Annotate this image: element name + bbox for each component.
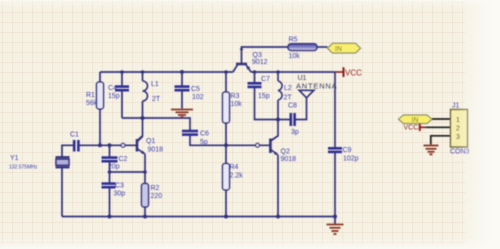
svg-text:C4: C4 xyxy=(108,85,117,92)
svg-text:C9: C9 xyxy=(343,147,352,154)
svg-text:9018: 9018 xyxy=(148,147,164,154)
crystal Y1 xyxy=(9,155,70,171)
capacitor C7 xyxy=(248,83,262,87)
svg-text:220: 220 xyxy=(151,193,163,200)
svg-text:Y1: Y1 xyxy=(10,155,19,162)
junction C7 top on VCC rail xyxy=(253,70,257,74)
svg-text:R2: R2 xyxy=(151,185,160,192)
svg-text:C1: C1 xyxy=(70,132,79,139)
wire Q3 emitter to VCC rail xyxy=(246,65,251,72)
svg-text:L2: L2 xyxy=(284,85,292,92)
capacitor C4 xyxy=(115,87,129,91)
junction R1 bottom on Q1 base wire xyxy=(98,143,102,147)
wire oscillator tank node xyxy=(122,118,190,131)
svg-text:Q1: Q1 xyxy=(146,138,155,145)
svg-text:VCC: VCC xyxy=(404,125,419,132)
port IN (top) xyxy=(328,43,361,53)
svg-text:C5: C5 xyxy=(191,86,200,93)
capacitor C9 xyxy=(328,148,342,152)
svg-text:C7: C7 xyxy=(261,76,270,83)
svg-text:IN: IN xyxy=(412,117,419,124)
svg-text:56k: 56k xyxy=(86,100,98,107)
junction L2 top on VCC rail xyxy=(276,70,280,74)
junction R3/R4 on Q2 base wire xyxy=(224,143,228,147)
transistor Q3 xyxy=(236,46,268,70)
node stub circle on Q2 base wire xyxy=(256,143,260,147)
svg-text:L1: L1 xyxy=(151,81,159,88)
capacitor C3 xyxy=(102,184,116,188)
svg-text:ANTENNA: ANTENNA xyxy=(296,82,337,91)
power ground at J1 xyxy=(424,146,439,155)
junction node A tank/collector xyxy=(141,116,145,120)
transistor Q1 xyxy=(137,136,163,154)
wire R1 top xyxy=(99,72,101,82)
resistor R3 xyxy=(223,92,243,123)
wire C7 bottom / PA tank node xyxy=(255,87,291,120)
svg-text:15p: 15p xyxy=(258,93,270,100)
junction C4 top on rail xyxy=(120,70,124,74)
svg-text:IN: IN xyxy=(335,46,342,53)
wire C6 bottom to base node xyxy=(190,135,269,146)
wire Q1 emitter / R2 column xyxy=(144,154,146,217)
power port VCC (connector side) xyxy=(404,124,427,132)
wire C4 top xyxy=(121,72,123,86)
junction R4 bottom on ground bus xyxy=(224,215,228,219)
wire R4 top xyxy=(225,145,227,163)
junction R3 top on rail xyxy=(224,70,228,74)
svg-text:20p: 20p xyxy=(108,164,120,171)
svg-text:R4: R4 xyxy=(230,164,239,171)
wire C9 column xyxy=(334,72,336,217)
wire Q2 emitter down xyxy=(277,155,279,217)
resistor R5 xyxy=(288,37,317,61)
svg-text:2T: 2T xyxy=(152,96,161,103)
wire L1 column / Q1 collector xyxy=(137,72,142,141)
svg-text:3p: 3p xyxy=(291,129,299,136)
svg-text:R5: R5 xyxy=(289,37,298,44)
junction C2 top on Q1 base wire xyxy=(108,143,112,147)
svg-text:30p: 30p xyxy=(114,191,126,198)
connector J1 pin wires xyxy=(426,119,451,145)
wire Q3 base lead xyxy=(242,47,289,64)
svg-text:C8: C8 xyxy=(288,103,297,110)
wire ground bus bottom xyxy=(62,216,335,218)
junction ground bus to C9/ground xyxy=(333,215,337,219)
svg-text:15p: 15p xyxy=(108,93,120,100)
junction C5 top on rail xyxy=(180,70,184,74)
svg-text:C6: C6 xyxy=(200,131,209,138)
inductor L2 xyxy=(278,81,282,100)
wire C1 to crystal xyxy=(62,145,74,157)
svg-text:9012: 9012 xyxy=(252,59,268,66)
junction R2 bottom on ground bus xyxy=(143,215,147,219)
svg-text:2.2k: 2.2k xyxy=(230,173,244,180)
svg-text:R1: R1 xyxy=(86,92,95,99)
transistor Q2 xyxy=(270,136,296,163)
svg-text:C3: C3 xyxy=(115,183,124,190)
capacitor C5 xyxy=(175,87,190,91)
wire C7 top xyxy=(254,72,256,83)
wire L2 column xyxy=(271,72,278,141)
wire C5 top xyxy=(181,72,183,86)
svg-text:132.575MHz: 132.575MHz xyxy=(9,165,38,171)
capacitor C1 xyxy=(74,140,78,152)
capacitor C2 xyxy=(102,158,118,162)
wire R3 top xyxy=(225,72,227,92)
svg-text:C2: C2 xyxy=(119,156,128,163)
svg-text:2T: 2T xyxy=(284,95,293,102)
wire R1 bottom xyxy=(99,109,101,145)
resistor R1 xyxy=(86,82,104,109)
resistor R2 xyxy=(142,184,163,208)
junction node B PA tank/collector xyxy=(276,118,280,122)
svg-text:Q3: Q3 xyxy=(253,52,262,59)
svg-text:10k: 10k xyxy=(231,101,243,108)
wire C5 to ground xyxy=(181,90,183,109)
svg-text:10k: 10k xyxy=(289,53,301,60)
junction C2-C3 to Q1 emitter wire xyxy=(108,170,112,174)
wire right VCC rail xyxy=(251,71,335,73)
power ground bottom right xyxy=(327,217,344,235)
svg-text:102p: 102p xyxy=(343,156,359,163)
svg-text:VCC: VCC xyxy=(345,69,362,78)
power ground under C5 xyxy=(171,110,193,118)
wire C4 bottom xyxy=(121,90,123,118)
junction L1 top on rail xyxy=(141,70,145,74)
edge fades xyxy=(458,0,500,249)
junction Q1 emitter to R2 top xyxy=(143,170,147,174)
wire R4 bottom xyxy=(225,190,227,217)
wire crystal bottom xyxy=(61,167,63,216)
svg-text:Q2: Q2 xyxy=(281,149,290,156)
port IN (connector side) xyxy=(399,115,433,124)
wire C2 top xyxy=(109,145,111,157)
capacitor C8 xyxy=(291,113,295,126)
svg-text:5p: 5p xyxy=(200,139,208,146)
wire C2-C3 middle xyxy=(109,161,111,183)
wire Q1 emitter node xyxy=(110,171,146,173)
svg-text:102: 102 xyxy=(192,94,204,101)
wire R5 to IN port xyxy=(317,46,328,48)
resistor R4 xyxy=(223,164,244,191)
junction Q2 emitter on ground bus xyxy=(276,215,280,219)
wire C3 bottom xyxy=(109,187,111,217)
node stub circle on Q1 base wire xyxy=(121,143,125,147)
wire Q1 base xyxy=(79,144,136,146)
svg-text:R3: R3 xyxy=(231,93,240,100)
svg-text:9018: 9018 xyxy=(281,156,297,163)
wire left supply rail xyxy=(100,71,233,73)
connector J1 CON3 xyxy=(450,103,470,156)
antenna U1 xyxy=(296,75,337,98)
capacitor C6 xyxy=(182,131,198,135)
power port VCC (top) xyxy=(335,67,362,77)
inductor L1 xyxy=(143,81,148,101)
wire C8 right to antenna xyxy=(295,98,307,120)
junction C3 bottom on ground bus xyxy=(108,215,112,219)
wire Q3 collector to left rail xyxy=(233,65,238,72)
wire R3 bottom xyxy=(225,123,227,145)
